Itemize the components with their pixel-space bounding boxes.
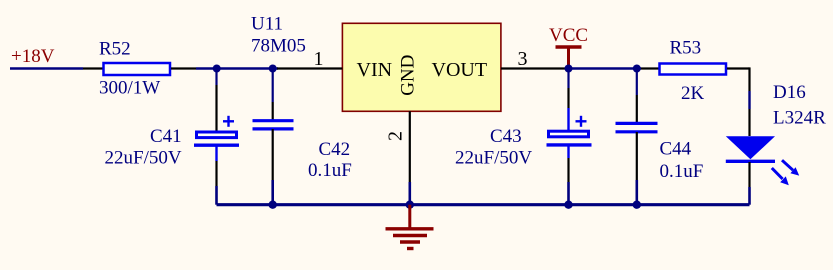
svg-text:22uF/50V: 22uF/50V [455,148,532,169]
svg-text:0.1uF: 0.1uF [308,160,352,181]
junction dot at C42 top [269,65,277,73]
svg-text:300/1W: 300/1W [99,78,160,99]
junction dot at C43 bottom [564,201,572,209]
capacitor C44 (0.1uF) [616,69,704,205]
svg-text:0.1uF: 0.1uF [660,161,704,182]
ground symbol [386,205,434,249]
U11 pin 3 VOUT [432,48,566,81]
svg-text:C42: C42 [319,139,351,160]
svg-text:+18V: +18V [11,46,55,67]
svg-text:R53: R53 [670,38,702,59]
svg-text:VIN: VIN [357,59,393,81]
svg-text:GND: GND [397,55,418,96]
svg-text:C43: C43 [490,126,522,147]
svg-text:2K: 2K [681,83,705,104]
svg-text:R52: R52 [99,39,131,60]
junction dot at VCC / C43 top [565,65,573,73]
svg-text:D16: D16 [773,82,806,103]
regulator U11 78M05 body [251,14,501,112]
junction dot at U11 GND bottom [406,201,414,209]
svg-text:78M05: 78M05 [251,36,306,57]
wire bottom ground rail [217,203,750,206]
svg-text:22uF/50V: 22uF/50V [105,148,182,169]
capacitor C43 (polarized 22uF/50V) [455,69,592,205]
LED D16 L324R [726,82,826,205]
junction dot at C41 top [213,65,221,73]
svg-text:C44: C44 [660,139,692,160]
power port VCC [549,25,588,69]
svg-text:VCC: VCC [549,25,588,46]
wire right branch down to LED [748,67,750,109]
svg-text:3: 3 [518,48,528,70]
svg-text:L324R: L324R [773,108,826,129]
svg-text:U11: U11 [251,14,283,35]
wire top rail between R52 and U11 pin1 [196,67,278,70]
wire top rail left from +18V to R52 [10,67,83,70]
svg-text:2: 2 [385,131,407,141]
U11 pin 1 VIN [277,48,392,81]
junction dot at C42 bottom [269,201,277,209]
svg-text:VOUT: VOUT [432,59,488,81]
U11 pin 2 GND [385,55,419,205]
junction dot at C44 / R53 top [633,65,641,73]
capacitor C41 (polarized 22uF/50V) [105,69,240,205]
svg-text:C41: C41 [150,126,182,147]
svg-text:1: 1 [314,48,324,70]
wire top rail between U11 pin3 and R53 [565,67,641,70]
node +18V label [11,46,55,67]
resistor R53 [641,38,750,105]
junction dot at C44 bottom [633,201,641,209]
resistor R52 [83,39,196,99]
capacitor C42 (0.1uF) [253,69,352,205]
